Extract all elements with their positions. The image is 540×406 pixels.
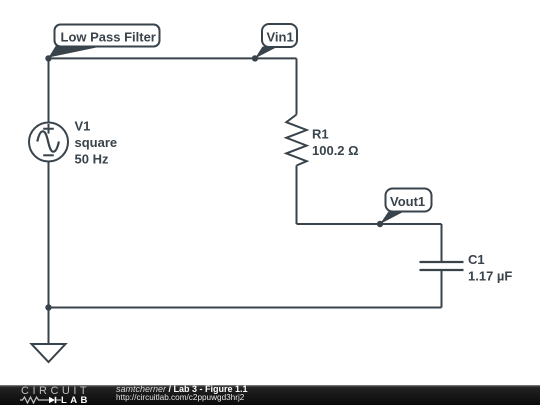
svg-text:1.17 µF: 1.17 µF: [468, 269, 512, 284]
svg-text:Vout1: Vout1: [390, 194, 425, 209]
label V1 value: [75, 119, 118, 167]
CircuitLab logo resistor-diode glyph: [20, 396, 62, 404]
label R1 value: [312, 127, 359, 159]
footer bar: [0, 385, 540, 405]
wire right branch below resistor: [296, 166, 298, 225]
svg-text:square: square: [75, 135, 118, 150]
label C1 value: [468, 252, 512, 284]
wire capacitor top lead: [441, 224, 443, 261]
wire right branch above resistor: [296, 58, 298, 114]
svg-text:Vin1: Vin1: [267, 30, 294, 45]
svg-text:100.2 Ω: 100.2 Ω: [312, 143, 359, 158]
footer title line: [116, 384, 248, 394]
ground: [32, 308, 66, 363]
node label Low Pass Filter: [49, 25, 160, 58]
svg-text:V1: V1: [75, 119, 91, 134]
footer url line: [116, 393, 244, 402]
node dot top-left: [45, 55, 51, 61]
node label Vin1: [255, 24, 297, 58]
svg-text:50 Hz: 50 Hz: [75, 152, 109, 167]
wire bottom rail: [49, 307, 442, 309]
CircuitLab logo wordmark: [21, 385, 90, 397]
voltage source V1: [29, 123, 68, 162]
svg-text:Low Pass Filter: Low Pass Filter: [61, 30, 156, 45]
node label Vout1: [380, 189, 432, 225]
node dot bottom junction: [45, 304, 51, 310]
node dot Vin1: [252, 55, 258, 61]
resistor R1: [286, 115, 306, 166]
wire capacitor bottom lead: [441, 271, 443, 308]
CircuitLab logo LAB text: [61, 395, 91, 406]
wire top rail: [49, 57, 297, 59]
wire left branch (bottom): [48, 162, 50, 308]
node dot Vout1: [377, 221, 383, 227]
svg-text:C1: C1: [468, 252, 485, 267]
wire left branch (top): [48, 58, 50, 122]
svg-text:R1: R1: [312, 127, 329, 142]
wire middle rail: [297, 223, 442, 225]
capacitor C1: [420, 262, 464, 270]
